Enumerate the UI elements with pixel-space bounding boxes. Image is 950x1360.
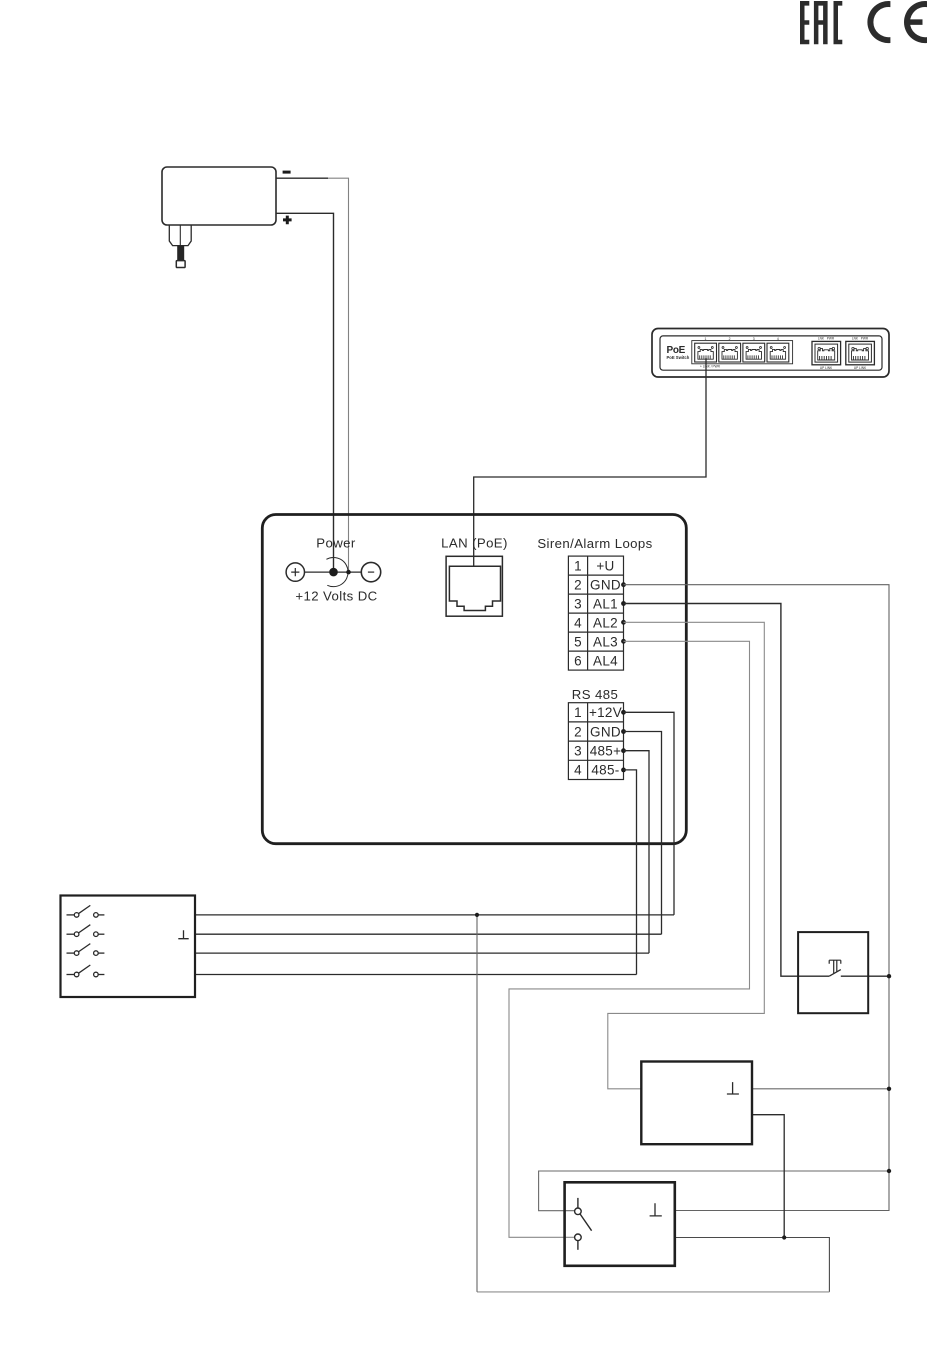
wire box B bottom to +12V loop: [752, 1115, 784, 1238]
svg-text:5: 5: [574, 634, 582, 649]
wire +12V loop bottom: [477, 1291, 829, 1293]
wire PSU minus: [276, 177, 328, 179]
RS485 pin numbers and names: [574, 705, 622, 778]
svg-text:6: 6: [574, 653, 582, 668]
svg-text:4: 4: [574, 615, 582, 630]
svg-text:PoE Switch: PoE Switch: [667, 355, 690, 360]
svg-text:GND: GND: [590, 724, 621, 739]
svg-text:LNK PWR: LNK PWR: [852, 336, 869, 340]
power adapter PSU: [162, 167, 276, 246]
PSU plug tip: [176, 261, 185, 268]
wire PoE switch to LAN: [474, 358, 706, 566]
label plus (PSU): [283, 216, 292, 225]
keypad switch S4: [67, 965, 105, 977]
box C (switch device): [565, 1182, 675, 1266]
svg-text:+U: +U: [596, 558, 614, 573]
svg-text:Siren/Alarm Loops: Siren/Alarm Loops: [537, 536, 652, 551]
junction dot keypad +12V: [475, 913, 479, 917]
svg-text:AL4: AL4: [593, 653, 618, 668]
PSU plug prong: [177, 245, 184, 260]
terminal block RS485: [568, 703, 623, 780]
RS485 pin dots: [621, 710, 626, 772]
svg-text:4: 4: [574, 763, 582, 778]
svg-text:RS 485: RS 485: [572, 687, 618, 702]
svg-text:3: 3: [574, 744, 582, 759]
svg-text:2: 2: [729, 337, 731, 341]
svg-text:+12V: +12V: [589, 705, 622, 720]
EAC logo: [800, 1, 842, 44]
PoE port 1: [695, 343, 717, 362]
terminal block siren: [568, 556, 623, 670]
svg-text:UP LINK: UP LINK: [854, 366, 867, 370]
keypad switch S1: [67, 905, 105, 917]
CE logo: [867, 1, 927, 43]
svg-text:Power: Power: [316, 536, 356, 551]
svg-text:2: 2: [574, 577, 582, 592]
wire PSU plus: [276, 213, 334, 568]
keypad switch S2: [67, 925, 105, 937]
wire GND branch to box C upper-left: [539, 1171, 889, 1211]
svg-text:+12 Volts DC: +12 Volts DC: [295, 589, 377, 604]
siren pin dots: [621, 582, 626, 643]
PoE port 2: [719, 343, 741, 362]
siren pin numbers and names: [574, 558, 621, 668]
svg-text:4: 4: [777, 337, 779, 341]
junction dot GND/box B: [887, 1087, 891, 1091]
junction dot GND/branch C: [887, 1169, 891, 1173]
push button symbol: [829, 960, 841, 976]
svg-text:2: 2: [574, 724, 582, 739]
DC jack symbol: [286, 557, 381, 586]
wire RS485 485+ to keypad: [195, 751, 649, 953]
svg-text:GND: GND: [590, 577, 621, 592]
svg-text:1: 1: [705, 337, 707, 341]
svg-text:485+: 485+: [590, 744, 622, 759]
PoE port 3: [743, 343, 765, 362]
button box: [798, 932, 868, 1013]
svg-text:LNK PWR: LNK PWR: [818, 336, 835, 340]
svg-text:3: 3: [753, 337, 755, 341]
svg-text:1: 1: [574, 558, 582, 573]
device main unit box: [262, 515, 686, 844]
svg-text:1: 1: [574, 705, 582, 720]
svg-text:AL3: AL3: [593, 634, 618, 649]
PoE port group frame: [692, 341, 793, 364]
box C switch symbol: [575, 1198, 592, 1250]
keypad box: [61, 896, 196, 998]
svg-text:PoE: PoE: [667, 345, 686, 356]
svg-text:AL1: AL1: [593, 596, 618, 611]
wire siren GND chain: [624, 585, 890, 1211]
wire box C lower-right to loop corner: [676, 1238, 830, 1292]
junction dot GND/button: [887, 974, 891, 978]
svg-text:AL2: AL2: [593, 615, 618, 630]
wire RS485 +12V to keypad: [195, 712, 674, 915]
PoE port 4: [767, 343, 789, 362]
svg-text:LAN (PoE): LAN (PoE): [441, 536, 508, 551]
wire box B right to GND: [752, 1088, 889, 1090]
wire button right to GND: [841, 975, 889, 977]
PoE uplink port 2: [846, 341, 875, 364]
box B (reader): [641, 1062, 752, 1145]
svg-text:+ LINK / PWR: + LINK / PWR: [700, 365, 721, 369]
keypad ground symbol: [178, 930, 188, 939]
junction dot loop/box B drop: [782, 1235, 786, 1239]
box C ground symbol: [650, 1203, 662, 1216]
keypad switch S3: [67, 944, 105, 956]
label minus (PSU): [283, 171, 291, 174]
wire RS485 485- to keypad: [195, 770, 637, 975]
PoE uplink port 1: [812, 341, 841, 364]
wire RS485 GND to keypad: [195, 732, 662, 935]
svg-text:3: 3: [574, 596, 582, 611]
RJ45 jack: [446, 556, 502, 616]
wire AL1 to button: [624, 604, 830, 977]
svg-text:485-: 485-: [591, 763, 619, 778]
PoE switch SW1: [652, 329, 889, 378]
wire AL3 to box C: [509, 641, 750, 1237]
svg-text:UP LINK: UP LINK: [820, 366, 833, 370]
wire AL2 to box B: [608, 622, 765, 1089]
box B ground symbol: [727, 1082, 739, 1094]
